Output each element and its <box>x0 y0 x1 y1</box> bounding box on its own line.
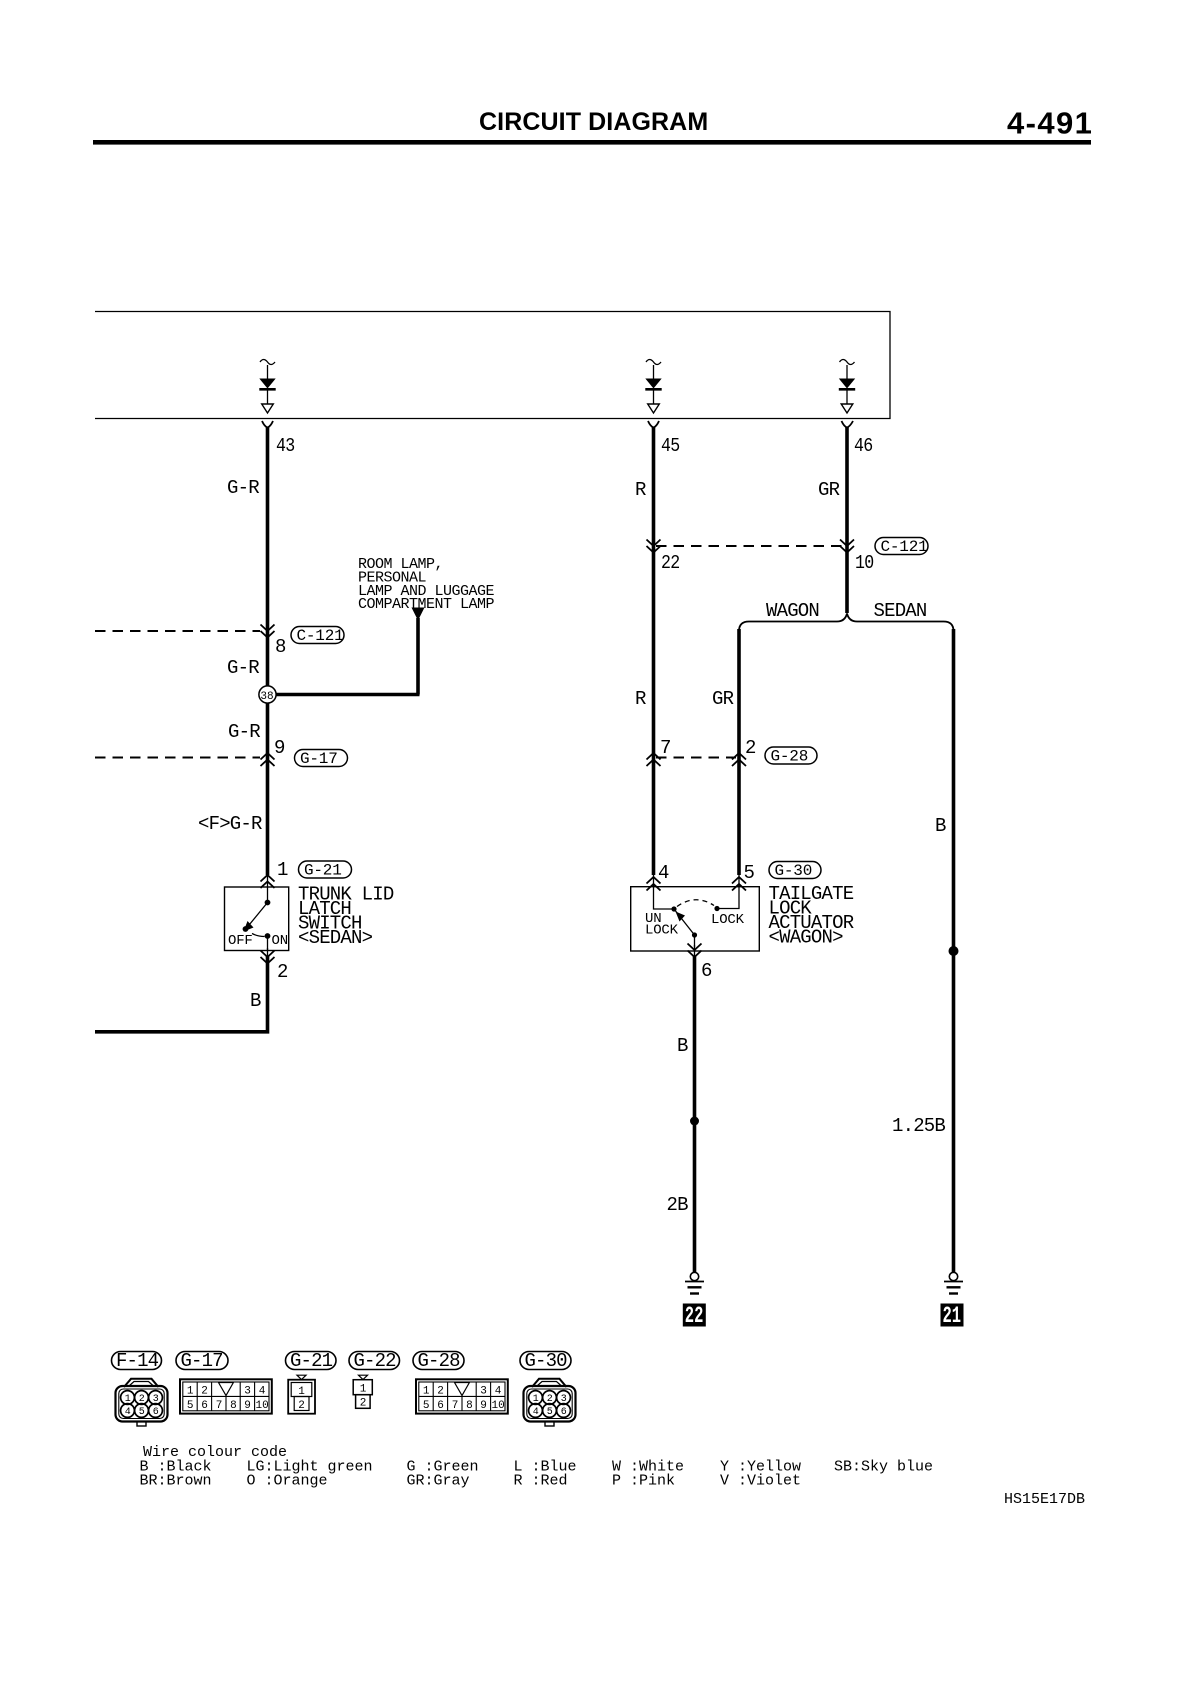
svg-text:5: 5 <box>547 1407 553 1418</box>
svg-text:<WAGON>: <WAGON> <box>769 927 844 949</box>
wire: dashed C-121 boundary (left) <box>95 630 260 632</box>
svg-text:6: 6 <box>561 1407 567 1418</box>
connector G-21 pinout drawing <box>288 1375 315 1414</box>
connector G-30 pinout drawing <box>524 1379 576 1426</box>
svg-text:2: 2 <box>437 1386 444 1398</box>
svg-text:22: 22 <box>661 552 680 574</box>
svg-text:COMPARTMENT LAMP: COMPARTMENT LAMP <box>358 596 495 613</box>
ground G2 (body ground 21) <box>944 1272 963 1293</box>
svg-text:22: 22 <box>685 1303 704 1329</box>
connector G-17 pinout drawing <box>180 1379 272 1413</box>
wire to room lamp (arrow + branch) <box>276 608 425 695</box>
svg-text:3: 3 <box>480 1386 487 1398</box>
svg-text:CIRCUIT DIAGRAM: CIRCUIT DIAGRAM <box>479 108 708 136</box>
connector C-121 pin 8 chevrons <box>261 625 275 638</box>
actuator lever <box>674 909 697 938</box>
svg-text:7: 7 <box>216 1400 223 1412</box>
svg-text:1: 1 <box>187 1386 194 1398</box>
svg-text:G-R: G-R <box>227 477 259 499</box>
svg-text:10: 10 <box>855 552 874 574</box>
diode D3 (in unit, above pin 46) <box>839 360 855 414</box>
svg-text:9: 9 <box>480 1400 487 1412</box>
svg-text:V :Violet: V :Violet <box>720 1473 801 1490</box>
svg-text:ON: ON <box>272 933 288 949</box>
svg-text:2: 2 <box>547 1394 553 1405</box>
svg-text:R :Red: R :Red <box>514 1473 568 1490</box>
svg-text:6: 6 <box>201 1400 208 1412</box>
svg-text:C-121: C-121 <box>881 538 928 556</box>
switch contact from pin 1 <box>267 887 269 903</box>
wire stub pin 4 <box>653 874 655 890</box>
svg-text:O :Orange: O :Orange <box>247 1473 328 1490</box>
svg-text:4: 4 <box>259 1386 266 1398</box>
svg-text:2B: 2B <box>667 1194 689 1216</box>
svg-text:SEDAN: SEDAN <box>874 600 927 622</box>
switch contact ON <box>265 933 271 939</box>
svg-text:G-30: G-30 <box>525 1350 568 1372</box>
connector pin 43 (female symbol) <box>262 421 295 457</box>
junction dot on sedan wire <box>949 946 959 956</box>
svg-text:<SEDAN>: <SEDAN> <box>298 927 373 949</box>
connector G-21 pin 1 chevrons <box>261 875 275 888</box>
svg-text:G-R: G-R <box>228 721 260 743</box>
svg-text:G-17: G-17 <box>300 750 338 768</box>
connector label C-121 <box>875 538 928 557</box>
svg-text:G-17: G-17 <box>181 1350 223 1372</box>
connector pin 46 (female symbol) <box>842 421 873 457</box>
svg-text:OFF: OFF <box>228 933 253 949</box>
svg-text:5: 5 <box>139 1407 145 1418</box>
svg-text:10: 10 <box>492 1400 505 1412</box>
svg-text:G-R: G-R <box>227 657 259 679</box>
svg-text:10: 10 <box>256 1400 269 1412</box>
svg-text:6: 6 <box>701 960 712 982</box>
svg-text:4: 4 <box>533 1407 539 1418</box>
connector label G-21 <box>286 1350 337 1372</box>
connector G-28 pin 2 chevrons <box>732 753 746 766</box>
actuator output wire to pin 6 <box>694 935 696 947</box>
connector F-14 pinout drawing <box>116 1379 168 1426</box>
connector G-30 pin 5 chevrons <box>732 877 746 891</box>
connector pin 45 (female symbol) <box>648 421 680 457</box>
svg-text:38: 38 <box>260 691 273 703</box>
connector G-30 pin 6 chevrons <box>688 944 702 958</box>
connector label F-14 <box>112 1350 162 1372</box>
trunk lid latch switch box <box>225 887 289 951</box>
tailgate lock actuator box <box>631 887 760 951</box>
connector G-22 pinout drawing <box>353 1375 372 1409</box>
connector G-17 pin 9 chevrons <box>261 753 275 766</box>
ETACS unit box (top) <box>95 312 890 419</box>
ground marker 22 <box>683 1303 706 1329</box>
svg-text:5: 5 <box>423 1400 430 1412</box>
connector G-28 pinout drawing <box>416 1379 508 1413</box>
svg-text:R: R <box>635 688 646 710</box>
wire stub pin 1 <box>267 874 269 887</box>
switch throw hint <box>252 934 265 937</box>
connector label G-17 <box>295 750 348 769</box>
svg-text:1: 1 <box>277 859 288 881</box>
wire stub pin 6 <box>694 945 696 958</box>
actuator dashed throw arc <box>677 900 714 907</box>
svg-text:8: 8 <box>466 1400 473 1412</box>
label UN LOCK <box>645 911 679 939</box>
svg-text:R: R <box>635 479 646 501</box>
svg-text:BR:Brown: BR:Brown <box>140 1473 212 1490</box>
connector label G-30 <box>769 862 821 881</box>
connector label G-30 <box>520 1350 571 1372</box>
svg-text:HS15E17DB: HS15E17DB <box>1004 1491 1085 1508</box>
svg-text:1.25B: 1.25B <box>892 1115 945 1137</box>
svg-text:45: 45 <box>661 435 680 457</box>
svg-text:C-121: C-121 <box>297 627 344 645</box>
wire: dashed G-17 boundary (left) <box>95 757 260 759</box>
svg-text:8: 8 <box>230 1400 237 1412</box>
labels TRUNK LID LATCH SWITCH (SEDAN) <box>298 884 394 950</box>
wire B sedan branch <box>952 629 956 1272</box>
junction 38 <box>259 686 276 703</box>
connector label G-28 <box>765 747 817 766</box>
svg-text:G-28: G-28 <box>771 748 809 766</box>
svg-text:3: 3 <box>153 1394 159 1405</box>
connector C-121 pin 22 chevrons <box>647 540 661 553</box>
svg-text:F-14: F-14 <box>116 1350 159 1372</box>
svg-text:2: 2 <box>201 1386 208 1398</box>
wire: dashed C-121 boundary (middle) <box>656 545 843 547</box>
svg-text:6: 6 <box>437 1400 444 1412</box>
svg-text:9: 9 <box>244 1400 251 1412</box>
svg-text:1: 1 <box>360 1383 367 1395</box>
wire from ON contact to pin 2 <box>267 936 269 950</box>
wire 45 R vertical <box>652 427 656 875</box>
svg-text:21: 21 <box>943 1303 962 1329</box>
svg-text:6: 6 <box>153 1407 159 1418</box>
wire 43 G-R vertical <box>266 427 270 875</box>
actuator internal wire from pin 5 <box>714 890 739 911</box>
svg-text:2: 2 <box>139 1394 145 1405</box>
diode D2 (in unit, above pin 45) <box>645 360 661 414</box>
switch lever <box>243 903 268 932</box>
wire B from actuator <box>693 956 697 1272</box>
svg-text:2: 2 <box>360 1398 367 1410</box>
ground marker 21 <box>941 1303 964 1329</box>
wire stub pin 5 <box>738 874 740 890</box>
header rule <box>93 140 1091 145</box>
svg-text:1: 1 <box>533 1394 539 1405</box>
svg-text:LOCK: LOCK <box>645 923 679 939</box>
wire: dashed G-28 boundary <box>656 757 736 759</box>
svg-text:G-30: G-30 <box>775 862 813 880</box>
svg-text:4: 4 <box>495 1386 502 1398</box>
svg-text:3: 3 <box>561 1394 567 1405</box>
wire split brace wagon/sedan <box>739 614 954 632</box>
connector G-21 pin 2 chevrons <box>261 951 275 964</box>
svg-text:G-21: G-21 <box>304 862 342 880</box>
svg-text:2: 2 <box>277 961 288 983</box>
connector G-28 pin 7 chevrons <box>647 753 661 766</box>
wire GR wagon branch <box>737 629 741 875</box>
svg-text:2: 2 <box>298 1400 305 1412</box>
actuator internal wire from pin 4 <box>654 890 677 912</box>
connector label G-22 <box>349 1350 400 1372</box>
connector label C-121 <box>291 627 344 646</box>
junction dot on actuator ground wire <box>690 1117 699 1126</box>
svg-text:WAGON: WAGON <box>766 600 819 622</box>
connector C-121 pin 10 chevrons <box>840 540 854 553</box>
wire colour code legend <box>140 1444 934 1490</box>
svg-text:B: B <box>250 990 261 1012</box>
wire B from switch to left edge <box>95 956 268 1032</box>
svg-text:46: 46 <box>854 435 873 457</box>
svg-text:5: 5 <box>187 1400 194 1412</box>
svg-text:GR:Gray: GR:Gray <box>407 1473 470 1490</box>
connector G-30 pin 4 chevrons <box>647 877 661 891</box>
svg-text:7: 7 <box>660 737 671 759</box>
wire 46 GR vertical <box>845 427 849 613</box>
svg-text:1: 1 <box>423 1386 430 1398</box>
svg-text:9: 9 <box>274 737 285 759</box>
svg-text:G-28: G-28 <box>418 1350 461 1372</box>
svg-text:3: 3 <box>244 1386 251 1398</box>
wire stub pin 2 <box>267 948 269 960</box>
connector label G-21 <box>299 861 352 880</box>
svg-text:G-21: G-21 <box>290 1350 333 1372</box>
svg-text:2: 2 <box>745 737 756 759</box>
label ROOM LAMP, PERSONAL LAMP AND LUGGAGE COMPARTMENT LAMP <box>358 556 495 613</box>
svg-text:4: 4 <box>125 1407 131 1418</box>
svg-text:SB:Sky blue: SB:Sky blue <box>834 1459 933 1476</box>
svg-text:P :Pink: P :Pink <box>612 1473 675 1490</box>
svg-text:GR: GR <box>712 688 734 710</box>
svg-text:GR: GR <box>818 479 840 501</box>
svg-text:8: 8 <box>275 636 286 658</box>
svg-text:LOCK: LOCK <box>711 912 745 928</box>
svg-text:4-491: 4-491 <box>1007 106 1093 141</box>
labels TAILGATE LOCK ACTUATOR (WAGON) <box>769 883 854 949</box>
svg-text:43: 43 <box>276 435 295 457</box>
svg-text:<F>G-R: <F>G-R <box>198 813 262 835</box>
svg-text:G-22: G-22 <box>354 1350 397 1372</box>
svg-text:1: 1 <box>298 1386 305 1398</box>
svg-text:B: B <box>935 815 946 837</box>
connector label G-28 <box>413 1350 464 1372</box>
diode D1 (in unit, above pin 43) <box>259 360 275 414</box>
svg-text:7: 7 <box>452 1400 459 1412</box>
svg-text:B: B <box>677 1035 688 1057</box>
svg-text:1: 1 <box>125 1394 131 1405</box>
connector label G-17 <box>176 1350 228 1372</box>
ground G1 (body ground 22) <box>685 1272 704 1293</box>
svg-text:5: 5 <box>744 862 755 884</box>
svg-text:4: 4 <box>658 862 669 884</box>
